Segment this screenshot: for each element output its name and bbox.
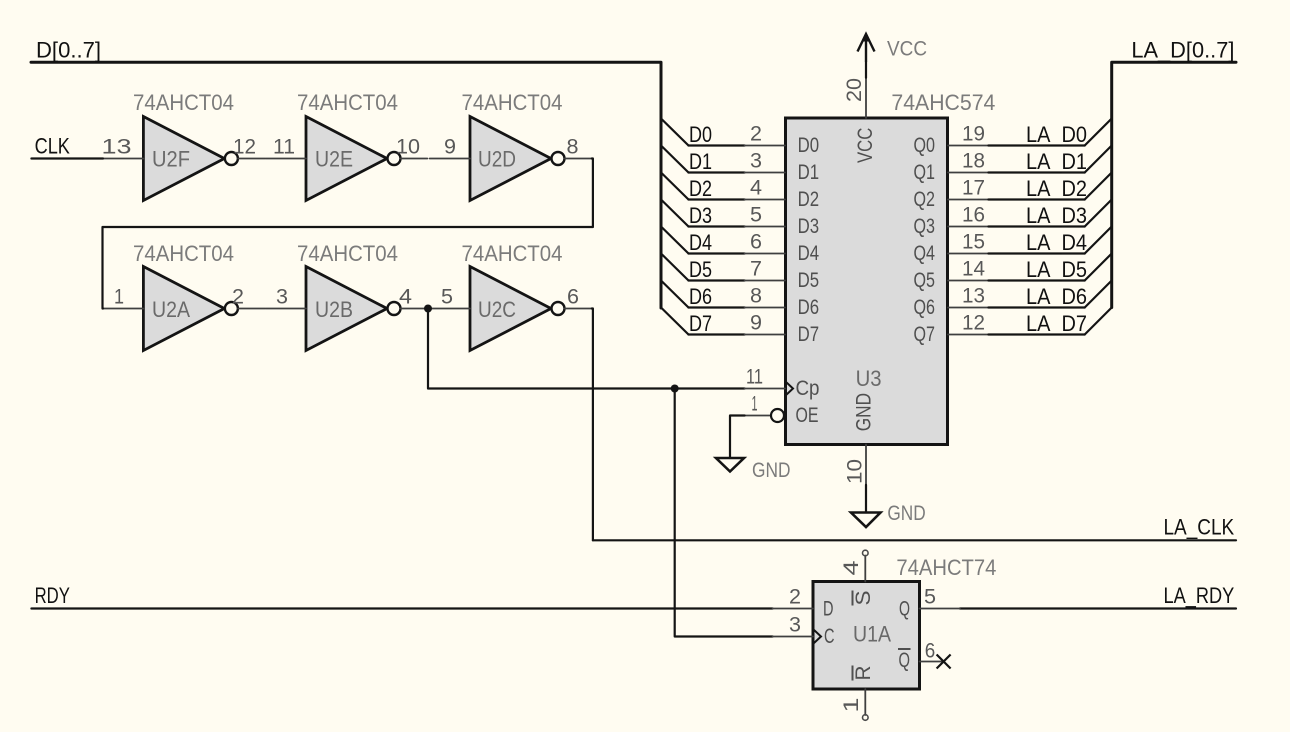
clock mark U3 Cp — [786, 382, 794, 396]
svg-text:15: 15 — [962, 231, 985, 254]
inverter U2C (74AHCT04) — [470, 267, 565, 351]
svg-text:17: 17 — [962, 177, 985, 200]
wire U2C.6 down to LA_CLK — [592, 309, 593, 541]
svg-text:4: 4 — [840, 560, 863, 575]
inverter U2E (74AHCT04) — [306, 117, 401, 201]
OE inversion bubble — [771, 409, 784, 422]
svg-text:LA_RDY: LA_RDY — [1164, 583, 1235, 608]
bus entry D6 — [661, 281, 689, 308]
U3 pin 19 stub — [948, 145, 988, 147]
input pin stub U2E — [266, 158, 306, 160]
bus entry LA_D5 — [1085, 254, 1112, 281]
svg-text:R: R — [852, 666, 875, 681]
inverter U2A (74AHCT04) — [143, 267, 238, 351]
U1A pin 1 stub (R-bar) — [864, 689, 866, 715]
svg-text:LA_D6: LA_D6 — [1026, 284, 1087, 309]
svg-text:S: S — [852, 591, 875, 606]
svg-text:74AHCT04: 74AHCT04 — [297, 90, 398, 115]
bus entry LA_D4 — [1085, 227, 1112, 254]
svg-text:D2: D2 — [689, 176, 712, 201]
svg-text:U2E: U2E — [315, 147, 353, 172]
pin name S-bar (rotated) — [852, 591, 875, 606]
output pin stub U2A — [238, 308, 265, 310]
bus entry D0 — [661, 119, 689, 146]
clock mark U1A C — [814, 630, 822, 644]
inverter U2D (74AHCT04) — [470, 117, 565, 201]
no-connect cross pin 6 — [937, 655, 951, 669]
bus entry LA_D3 — [1085, 200, 1112, 227]
svg-text:Q1: Q1 — [914, 161, 936, 184]
U3 pin 6 stub — [745, 253, 785, 255]
svg-text:Q7: Q7 — [914, 323, 936, 346]
wire D1 to U3 pin 3 — [689, 171, 745, 173]
output pin stub U2B — [401, 308, 428, 310]
svg-text:LA_D7: LA_D7 — [1026, 311, 1087, 336]
svg-text:4: 4 — [750, 177, 762, 200]
svg-text:D5: D5 — [798, 269, 820, 292]
wire junction down to U1A pin C — [675, 389, 773, 637]
U3 pin 9 stub — [745, 334, 785, 336]
svg-text:U2B: U2B — [315, 297, 353, 322]
U1A pin 6 stub (Q-bar) — [920, 661, 944, 663]
svg-text:5: 5 — [924, 586, 936, 609]
svg-text:LA_D5: LA_D5 — [1026, 257, 1087, 282]
ground symbol at pin 10 — [851, 513, 881, 528]
svg-text:D1: D1 — [798, 161, 820, 184]
bus LA_D[0..7] — [1112, 62, 1236, 307]
wire U1A Q to LA_RDY — [960, 607, 1236, 609]
svg-text:OE: OE — [796, 404, 819, 427]
svg-text:9: 9 — [750, 312, 762, 335]
svg-text:8: 8 — [567, 136, 579, 159]
svg-text:74AHCT04: 74AHCT04 — [297, 241, 398, 266]
svg-text:Cp: Cp — [796, 377, 820, 400]
U3 pin 10 stub (GND) — [865, 445, 867, 485]
svg-text:RDY: RDY — [35, 583, 71, 608]
input pin stub U2A — [103, 308, 143, 310]
bus entry D7 — [661, 308, 689, 335]
svg-text:U3: U3 — [856, 366, 882, 391]
svg-text:12: 12 — [233, 136, 256, 159]
inverter U2F (74AHCT04) — [143, 117, 238, 201]
svg-text:2: 2 — [789, 586, 801, 609]
svg-text:10: 10 — [843, 459, 866, 484]
wire OE to GND — [730, 416, 745, 459]
bus entry D5 — [661, 254, 689, 281]
wire U3 pin 12 to LA_D7 — [988, 333, 1084, 335]
wire U3 pin 16 to LA_D3 — [988, 225, 1084, 227]
svg-text:LA_D3: LA_D3 — [1026, 203, 1087, 228]
input pin stub U2C — [430, 308, 470, 310]
output pin stub U2F — [238, 158, 265, 160]
svg-text:Q: Q — [899, 598, 910, 621]
U3 pin 4 stub — [745, 199, 785, 201]
U1A pin 2 stub (D) — [773, 608, 813, 610]
input pin stub U2F — [103, 158, 143, 160]
bus entry D1 — [661, 146, 689, 173]
svg-text:Q: Q — [899, 649, 911, 672]
junction on Cp wire — [671, 385, 679, 393]
wire RDY to U1A pin D — [31, 607, 772, 609]
U3 pin 7 stub — [745, 280, 785, 282]
svg-text:Q5: Q5 — [914, 269, 936, 292]
U3 pin 18 stub — [948, 172, 988, 174]
svg-text:4: 4 — [399, 286, 412, 309]
svg-text:D0: D0 — [798, 134, 820, 157]
bus entry D3 — [661, 200, 689, 227]
bus D[0..7] — [31, 62, 661, 308]
input pin stub U2B — [266, 308, 306, 310]
svg-text:74AHCT04: 74AHCT04 — [133, 241, 234, 266]
pin number 4 (rotated) — [840, 560, 863, 575]
svg-text:GND: GND — [752, 459, 791, 482]
U3 pin 11 stub (Cp) — [745, 388, 785, 390]
svg-text:74AHCT04: 74AHCT04 — [462, 241, 563, 266]
wire D5 to U3 pin 7 — [689, 279, 745, 281]
svg-text:D2: D2 — [798, 188, 820, 211]
wire U3 pin 19 to LA_D0 — [988, 144, 1084, 146]
svg-text:6: 6 — [567, 286, 579, 309]
U3 pin 17 stub — [948, 199, 988, 201]
svg-text:Q0: Q0 — [914, 134, 936, 157]
bus entry D4 — [661, 227, 689, 254]
svg-text:3: 3 — [789, 614, 801, 637]
dangling pin end circle pin 4 — [863, 550, 869, 556]
svg-text:D3: D3 — [798, 215, 820, 238]
wire D2 to U3 pin 4 — [689, 198, 745, 200]
svg-text:VCC: VCC — [887, 37, 927, 60]
svg-text:D4: D4 — [689, 230, 712, 255]
bus entry D2 — [661, 173, 689, 200]
power symbol VCC — [858, 33, 875, 63]
svg-text:U1A: U1A — [853, 622, 891, 647]
wire D7 to U3 pin 9 — [689, 333, 745, 335]
svg-text:1: 1 — [840, 698, 863, 713]
svg-text:Q2: Q2 — [914, 188, 936, 211]
wire pin 20 to VCC symbol — [865, 62, 867, 78]
wire U3 pin 17 to LA_D2 — [988, 198, 1084, 200]
wire U3 pin 14 to LA_D5 — [988, 279, 1084, 281]
svg-text:18: 18 — [962, 150, 985, 173]
pin number 20 (rotated) — [843, 78, 866, 102]
svg-text:U2C: U2C — [478, 297, 516, 322]
pin name R-bar (rotated) — [852, 666, 875, 681]
svg-text:D3: D3 — [689, 203, 712, 228]
U1A pin 5 stub (Q) — [920, 608, 960, 610]
svg-text:D4: D4 — [798, 242, 820, 265]
wire U3 pin 18 to LA_D1 — [988, 171, 1084, 173]
svg-text:13: 13 — [102, 136, 132, 159]
svg-text:D1: D1 — [689, 149, 712, 174]
wire D4 to U3 pin 6 — [689, 252, 745, 254]
svg-text:74AHCT74: 74AHCT74 — [896, 555, 996, 580]
svg-text:D6: D6 — [798, 296, 820, 319]
svg-text:C: C — [824, 625, 835, 648]
svg-text:6: 6 — [925, 640, 936, 663]
wire D0 to U3 pin 2 — [689, 144, 745, 146]
svg-text:Q3: Q3 — [914, 215, 936, 238]
svg-text:D: D — [823, 598, 834, 621]
wire U3 pin 13 to LA_D6 — [988, 306, 1084, 308]
svg-text:D7: D7 — [689, 311, 712, 336]
input pin stub U2D — [430, 158, 470, 160]
junction on U2B output — [424, 305, 432, 313]
svg-text:U2D: U2D — [478, 147, 516, 172]
bus entry LA_D0 — [1085, 119, 1112, 146]
U3 pin 20 stub (VCC) — [865, 78, 867, 118]
wire junction to U3 Cp pin 11 — [428, 309, 745, 389]
svg-text:VCC: VCC — [854, 128, 877, 163]
svg-text:LA_CLK: LA_CLK — [1164, 514, 1235, 539]
svg-text:U2A: U2A — [152, 297, 190, 322]
svg-text:1: 1 — [752, 393, 758, 416]
svg-text:D7: D7 — [798, 323, 820, 346]
svg-text:LA_D[0..7]: LA_D[0..7] — [1131, 38, 1234, 63]
svg-text:8: 8 — [750, 285, 762, 308]
svg-text:3: 3 — [276, 286, 288, 309]
svg-text:9: 9 — [444, 136, 456, 159]
U3 pin 12 stub — [948, 334, 988, 336]
dangling pin end circle pin 1 — [863, 715, 869, 721]
svg-text:D[0..7]: D[0..7] — [36, 38, 101, 63]
U3 pin 2 stub — [745, 145, 785, 147]
output pin stub U2D — [565, 158, 592, 160]
svg-text:13: 13 — [962, 285, 985, 308]
wire D6 to U3 pin 8 — [689, 306, 745, 308]
U3 pin 16 stub — [948, 226, 988, 228]
svg-text:D0: D0 — [689, 122, 712, 147]
wire U2D.8 to U2A.1 — [103, 159, 593, 309]
wire CLK to U2F pin 13 — [31, 157, 103, 159]
U3 pin 5 stub — [745, 226, 785, 228]
bus entry LA_D2 — [1085, 173, 1112, 200]
svg-text:GND: GND — [853, 393, 876, 431]
bus entry LA_D6 — [1085, 281, 1112, 308]
svg-text:16: 16 — [962, 204, 985, 227]
svg-text:LA_D2: LA_D2 — [1026, 176, 1087, 201]
svg-text:74AHCT04: 74AHCT04 — [133, 90, 234, 115]
U3 pin 1 stub (OE) — [745, 415, 771, 417]
output pin stub U2E — [401, 158, 428, 160]
svg-text:GND: GND — [887, 502, 925, 525]
svg-text:10: 10 — [396, 136, 420, 159]
pin name GND (rotated) — [853, 393, 876, 431]
wire D3 to U3 pin 5 — [689, 225, 745, 227]
svg-text:11: 11 — [746, 366, 763, 389]
U1A pin 4 stub (S-bar) — [864, 556, 866, 582]
pin name VCC (rotated) — [854, 128, 877, 163]
svg-text:Q6: Q6 — [914, 296, 936, 319]
svg-text:Q4: Q4 — [914, 242, 936, 265]
svg-text:2: 2 — [750, 123, 762, 146]
wire LA_CLK — [593, 539, 1236, 541]
svg-text:D6: D6 — [689, 284, 712, 309]
svg-text:5: 5 — [750, 204, 762, 227]
ground symbol at OE — [716, 458, 744, 472]
U3 pin 14 stub — [948, 280, 988, 282]
svg-text:7: 7 — [750, 258, 762, 281]
svg-text:12: 12 — [962, 312, 985, 335]
svg-text:19: 19 — [962, 123, 985, 146]
flip-flop U1A 74AHCT74 body — [813, 582, 920, 690]
IC U3 74AHC574 body — [786, 118, 948, 445]
svg-text:LA_D0: LA_D0 — [1026, 122, 1087, 147]
bus entry LA_D1 — [1085, 146, 1112, 173]
svg-text:CLK: CLK — [35, 133, 71, 158]
wire U3 pin 15 to LA_D4 — [988, 252, 1084, 254]
svg-text:20: 20 — [843, 78, 866, 102]
U1A pin 3 stub (C) — [773, 636, 813, 638]
svg-text:LA_D4: LA_D4 — [1026, 230, 1087, 255]
svg-text:6: 6 — [750, 231, 762, 254]
svg-text:1: 1 — [114, 286, 124, 309]
svg-text:2: 2 — [232, 286, 244, 309]
pin number 1 (rotated) — [840, 698, 863, 713]
output pin stub U2C — [565, 308, 592, 310]
bus entry LA_D7 — [1085, 308, 1112, 335]
svg-text:LA_D1: LA_D1 — [1026, 149, 1087, 174]
U3 pin 3 stub — [745, 172, 785, 174]
svg-text:5: 5 — [441, 286, 453, 309]
wire pin 10 to GND symbol — [865, 485, 867, 513]
svg-text:74AHCT04: 74AHCT04 — [462, 90, 563, 115]
inverter U2B (74AHCT04) — [306, 267, 401, 351]
U3 pin 8 stub — [745, 307, 785, 309]
U3 pin 13 stub — [948, 307, 988, 309]
svg-text:D5: D5 — [689, 257, 712, 282]
svg-text:U2F: U2F — [152, 147, 190, 172]
pin number 10 (rotated) — [843, 459, 866, 484]
svg-text:14: 14 — [962, 258, 985, 281]
svg-text:3: 3 — [750, 150, 762, 173]
svg-text:74AHC574: 74AHC574 — [891, 90, 995, 115]
U3 pin 15 stub — [948, 253, 988, 255]
svg-text:11: 11 — [273, 136, 295, 159]
